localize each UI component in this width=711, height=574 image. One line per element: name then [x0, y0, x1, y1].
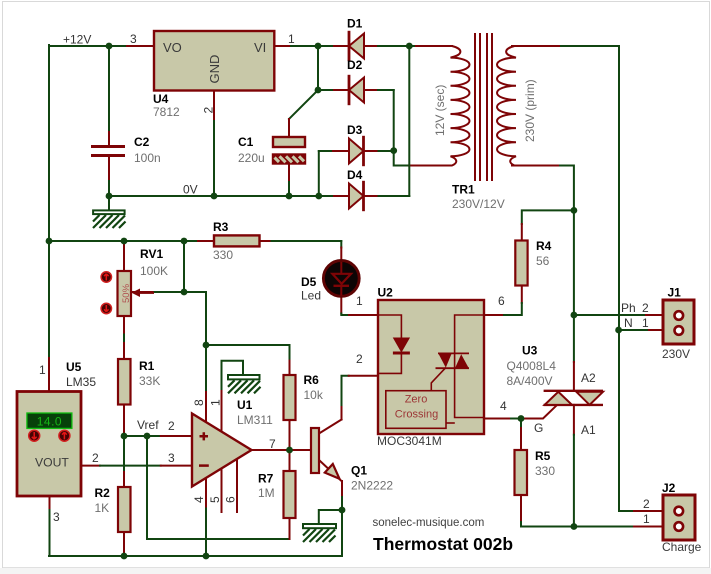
svg-text:1: 1: [643, 512, 650, 526]
wire R7 top lead: [289, 450, 291, 471]
wire D2 right down to D3 node: [393, 90, 395, 151]
svg-text:J2: J2: [662, 481, 676, 495]
svg-text:VI: VI: [254, 40, 266, 55]
svg-text:G: G: [534, 421, 543, 435]
regulator U4 7812: [130, 31, 295, 119]
resistor R2: [95, 486, 131, 532]
wire triac A1: [573, 405, 575, 527]
ground at C2: [93, 196, 126, 228]
svg-text:Led: Led: [301, 289, 321, 303]
node junction +12V/mid rail: [46, 238, 53, 245]
svg-text:33K: 33K: [139, 374, 160, 388]
svg-text:230V (prim): 230V (prim): [523, 79, 537, 142]
resistor R5: [515, 449, 556, 495]
wire Vref down and right to R7 bottom: [147, 436, 290, 539]
svg-text:2: 2: [643, 497, 650, 511]
svg-text:N: N: [624, 316, 633, 330]
wire opamp pin6: [236, 459, 238, 512]
sensor U5 LM35: [17, 360, 99, 524]
optocoupler U2 MOC3041M: [356, 286, 507, 449]
diode D3: [347, 123, 364, 166]
svg-text:+12V: +12V: [63, 33, 91, 47]
node junction 0V/C2: [106, 193, 113, 200]
node junction R6 top: [203, 342, 210, 349]
wire D5 bottom to U2 pin1: [341, 298, 378, 316]
svg-text:2: 2: [202, 107, 216, 114]
svg-text:3: 3: [130, 32, 137, 46]
wire U4 VI to D1 node: [274, 45, 318, 47]
svg-text:U1: U1: [237, 398, 253, 412]
svg-text:Charge: Charge: [662, 540, 702, 554]
wire RV1 top lead: [123, 241, 125, 271]
node junction 0V/U4 gnd: [211, 193, 218, 200]
wire R1 bottom to Vref node: [123, 405, 125, 437]
wire C2 to 0V rail: [108, 157, 110, 196]
wire secondary top lead: [409, 45, 452, 47]
resistor R1: [118, 359, 160, 405]
svg-text:230V: 230V: [662, 347, 690, 361]
svg-text:MOC3041M: MOC3041M: [377, 434, 442, 448]
svg-text:Ph: Ph: [621, 301, 636, 315]
svg-text:8A/400V: 8A/400V: [507, 374, 553, 388]
wire opamp pin7 output: [253, 449, 290, 451]
wire D5 top lead: [340, 241, 342, 260]
wire R1R2 column: [123, 436, 125, 487]
node junction +12V/C2: [106, 43, 113, 50]
wire bottom rail: [49, 555, 342, 557]
svg-text:R4: R4: [536, 239, 552, 253]
ground at U1 pin1: [228, 375, 261, 393]
wire D1 node up right vertical: [408, 46, 410, 196]
wire left vertical +12V down to U5 pin1: [48, 45, 50, 392]
wire primary top lead to right: [512, 46, 619, 511]
node junction N: [615, 327, 622, 334]
wire gnd branch at Q1: [319, 510, 342, 524]
svg-text:Thermostat 002b: Thermostat 002b: [373, 534, 513, 554]
svg-text:1: 1: [288, 32, 295, 46]
svg-text:Q1: Q1: [351, 464, 367, 478]
svg-text:R6: R6: [304, 373, 320, 387]
svg-text:R3: R3: [213, 220, 229, 234]
wire Ph to J1: [574, 314, 663, 316]
capacitor C2: [91, 135, 161, 165]
svg-text:R2: R2: [95, 486, 111, 500]
svg-text:J1: J1: [668, 286, 682, 300]
svg-text:Crossing: Crossing: [395, 409, 438, 421]
svg-text:GND: GND: [207, 55, 222, 84]
svg-text:Q4008L4: Q4008L4: [507, 359, 557, 373]
node junction R1/Vref: [121, 433, 128, 440]
svg-text:A2: A2: [581, 371, 596, 385]
wire Vref row: [124, 435, 191, 437]
svg-text:A1: A1: [581, 423, 596, 437]
node junction A1/R5/J2: [571, 523, 578, 530]
node junction 0V/C1: [286, 193, 293, 200]
resistor R6: [284, 373, 324, 420]
wire Q1 base lead: [290, 449, 312, 451]
wire mid rail y241: [49, 240, 198, 242]
svg-text:R7: R7: [258, 472, 274, 486]
svg-text:7812: 7812: [153, 105, 180, 119]
wire opamp pin5: [221, 468, 223, 512]
svg-text:2: 2: [92, 451, 99, 465]
wire U4 GND pin down: [213, 91, 215, 197]
wire node D1-D2 left vertical: [317, 46, 319, 90]
wire opamp pin1 to gnd: [222, 361, 244, 432]
node junction bottom rail pin4: [203, 553, 210, 560]
svg-text:220u: 220u: [238, 151, 265, 165]
svg-text:U5: U5: [66, 360, 82, 374]
wire opamp pin8: [205, 345, 207, 423]
resistor R7: [258, 471, 296, 518]
svg-text:100n: 100n: [134, 151, 161, 165]
svg-text:8: 8: [192, 399, 206, 406]
svg-text:100K: 100K: [140, 264, 168, 278]
svg-text:7: 7: [269, 437, 276, 451]
svg-text:1: 1: [39, 363, 46, 377]
svg-text:1: 1: [642, 316, 649, 330]
node junction wiper branch: [181, 238, 188, 245]
wire RV1 wiper to R6/pin8 column: [131, 292, 206, 345]
svg-text:C1: C1: [238, 135, 254, 149]
wire N to J1: [619, 329, 663, 331]
wire D4 leads: [334, 195, 409, 197]
wire Q1 emitter down: [341, 481, 343, 510]
wire 0V rail: [109, 195, 334, 197]
svg-text:D4: D4: [347, 168, 363, 182]
node junction D2 left: [315, 87, 322, 94]
svg-text:4: 4: [500, 399, 507, 413]
svg-text:TR1: TR1: [452, 183, 475, 197]
svg-text:1: 1: [356, 294, 363, 308]
diode D2: [347, 58, 364, 105]
svg-text:D3: D3: [347, 123, 363, 137]
svg-text:56: 56: [536, 254, 550, 268]
svg-text:Zero: Zero: [405, 394, 428, 406]
svg-text:4: 4: [192, 496, 206, 503]
node junction pin7/R6/R7/base: [286, 447, 293, 454]
svg-text:RV1: RV1: [140, 247, 163, 261]
wire RV1 bottom to R1: [123, 316, 125, 359]
node junction bottom rail R2: [121, 553, 128, 560]
svg-text:2: 2: [356, 352, 363, 366]
ground at Q1 emitter: [303, 524, 336, 542]
wire +12V rail top: [49, 45, 154, 47]
diode D4: [347, 168, 364, 211]
node junction gate/R5: [518, 415, 525, 422]
wire diagonal D2 left to C1 top: [289, 90, 318, 137]
wire gate lead: [521, 405, 557, 419]
wire R6 bottom lead: [289, 420, 291, 450]
node junction D1 left: [315, 43, 322, 50]
resistor R4: [515, 239, 551, 286]
triac U3 Q4008L4: [507, 344, 604, 438]
op-amp U1 LM311: [168, 398, 276, 503]
svg-text:3: 3: [168, 451, 175, 465]
wire J2 pin2: [619, 510, 663, 512]
node junction Vref: [144, 433, 151, 440]
svg-text:2: 2: [168, 419, 175, 433]
svg-text:LM311: LM311: [237, 413, 273, 427]
svg-text:R1: R1: [139, 359, 155, 373]
node junction wiper/rail branch: [181, 289, 188, 296]
node junction emitter/gnd: [339, 507, 346, 514]
wire C1 bottom: [288, 164, 290, 197]
svg-text:6: 6: [224, 496, 238, 503]
node junction RV1 top: [121, 238, 128, 245]
node junction 0V/D3: [315, 193, 322, 200]
svg-text:3: 3: [53, 510, 60, 524]
svg-text:1: 1: [209, 399, 223, 406]
svg-text:0V: 0V: [183, 183, 198, 197]
wire R4 bottom to U2 pin6: [484, 285, 522, 315]
svg-text:sonelec-musique.com: sonelec-musique.com: [373, 517, 485, 529]
svg-text:VOUT: VOUT: [35, 456, 69, 470]
svg-text:330: 330: [213, 248, 233, 262]
wire D3 left branch to 0V: [319, 151, 349, 196]
svg-text:14.0: 14.0: [37, 415, 62, 429]
wire D1 leads: [318, 45, 409, 47]
wire D3 node to secondary bottom: [394, 151, 449, 166]
wire primary bottom lead: [512, 166, 574, 316]
svg-text:VO: VO: [163, 40, 182, 55]
svg-text:1M: 1M: [258, 486, 275, 500]
node junction Ph: [571, 312, 578, 319]
wire D3 right to node: [364, 150, 394, 152]
svg-text:330: 330: [535, 464, 555, 478]
svg-text:2: 2: [642, 301, 649, 315]
svg-text:12V (sec): 12V (sec): [433, 85, 447, 136]
svg-text:D1: D1: [347, 17, 363, 31]
wire R4 top branch: [522, 210, 574, 241]
node junction D1 right: [406, 43, 413, 50]
potentiometer RV1: [101, 247, 168, 316]
wire Q1 collector to U2 pin2: [319, 376, 378, 434]
svg-text:2N2222: 2N2222: [351, 479, 393, 493]
svg-text:R5: R5: [535, 449, 551, 463]
svg-text:230V/12V: 230V/12V: [452, 197, 505, 211]
node junction D3 right: [390, 147, 397, 154]
svg-text:50%: 50%: [121, 283, 132, 303]
wire R5 bottom row to J2 pin1: [521, 495, 663, 527]
svg-text:5: 5: [208, 496, 222, 503]
diode D1: [347, 17, 364, 62]
svg-text:6: 6: [498, 294, 505, 308]
svg-text:U4: U4: [153, 92, 169, 106]
wire emitter column up from rail: [341, 510, 343, 556]
svg-text:10k: 10k: [304, 388, 324, 402]
svg-text:D2: D2: [347, 58, 363, 72]
wire U5 pin3 to bottom rail: [49, 496, 51, 556]
node junction TR1/R4: [571, 207, 578, 214]
svg-text:C2: C2: [134, 135, 150, 149]
wire C2 branch from +12V: [108, 46, 110, 146]
transistor Q1 2N2222: [311, 428, 393, 493]
wire wiper branch vertical from rail: [183, 241, 185, 292]
wire triac A2: [573, 315, 575, 391]
wire R5 top lead: [520, 419, 522, 451]
wire opamp pin4: [205, 477, 207, 556]
resistor R3: [213, 220, 260, 262]
svg-text:D5: D5: [301, 275, 317, 289]
svg-text:1K: 1K: [95, 501, 110, 515]
svg-text:U2: U2: [378, 286, 394, 300]
wire R2 bottom: [123, 532, 125, 556]
wire U5 pin2 to opamp pin3: [81, 465, 191, 467]
wire R3 leads: [198, 240, 341, 242]
LED D5: [301, 261, 359, 303]
connector J2 Charge: [643, 481, 702, 554]
svg-text:U3: U3: [522, 344, 538, 358]
svg-text:Vref: Vref: [137, 418, 159, 432]
wire U2 pin4 to gate node: [484, 418, 521, 420]
svg-text:LM35: LM35: [66, 375, 96, 389]
transformer TR1: [416, 33, 560, 181]
wire R6 top branch row: [206, 345, 290, 375]
wire D2 leads: [318, 89, 394, 91]
connector J1 230V: [621, 286, 694, 362]
capacitor C1: [238, 135, 305, 165]
